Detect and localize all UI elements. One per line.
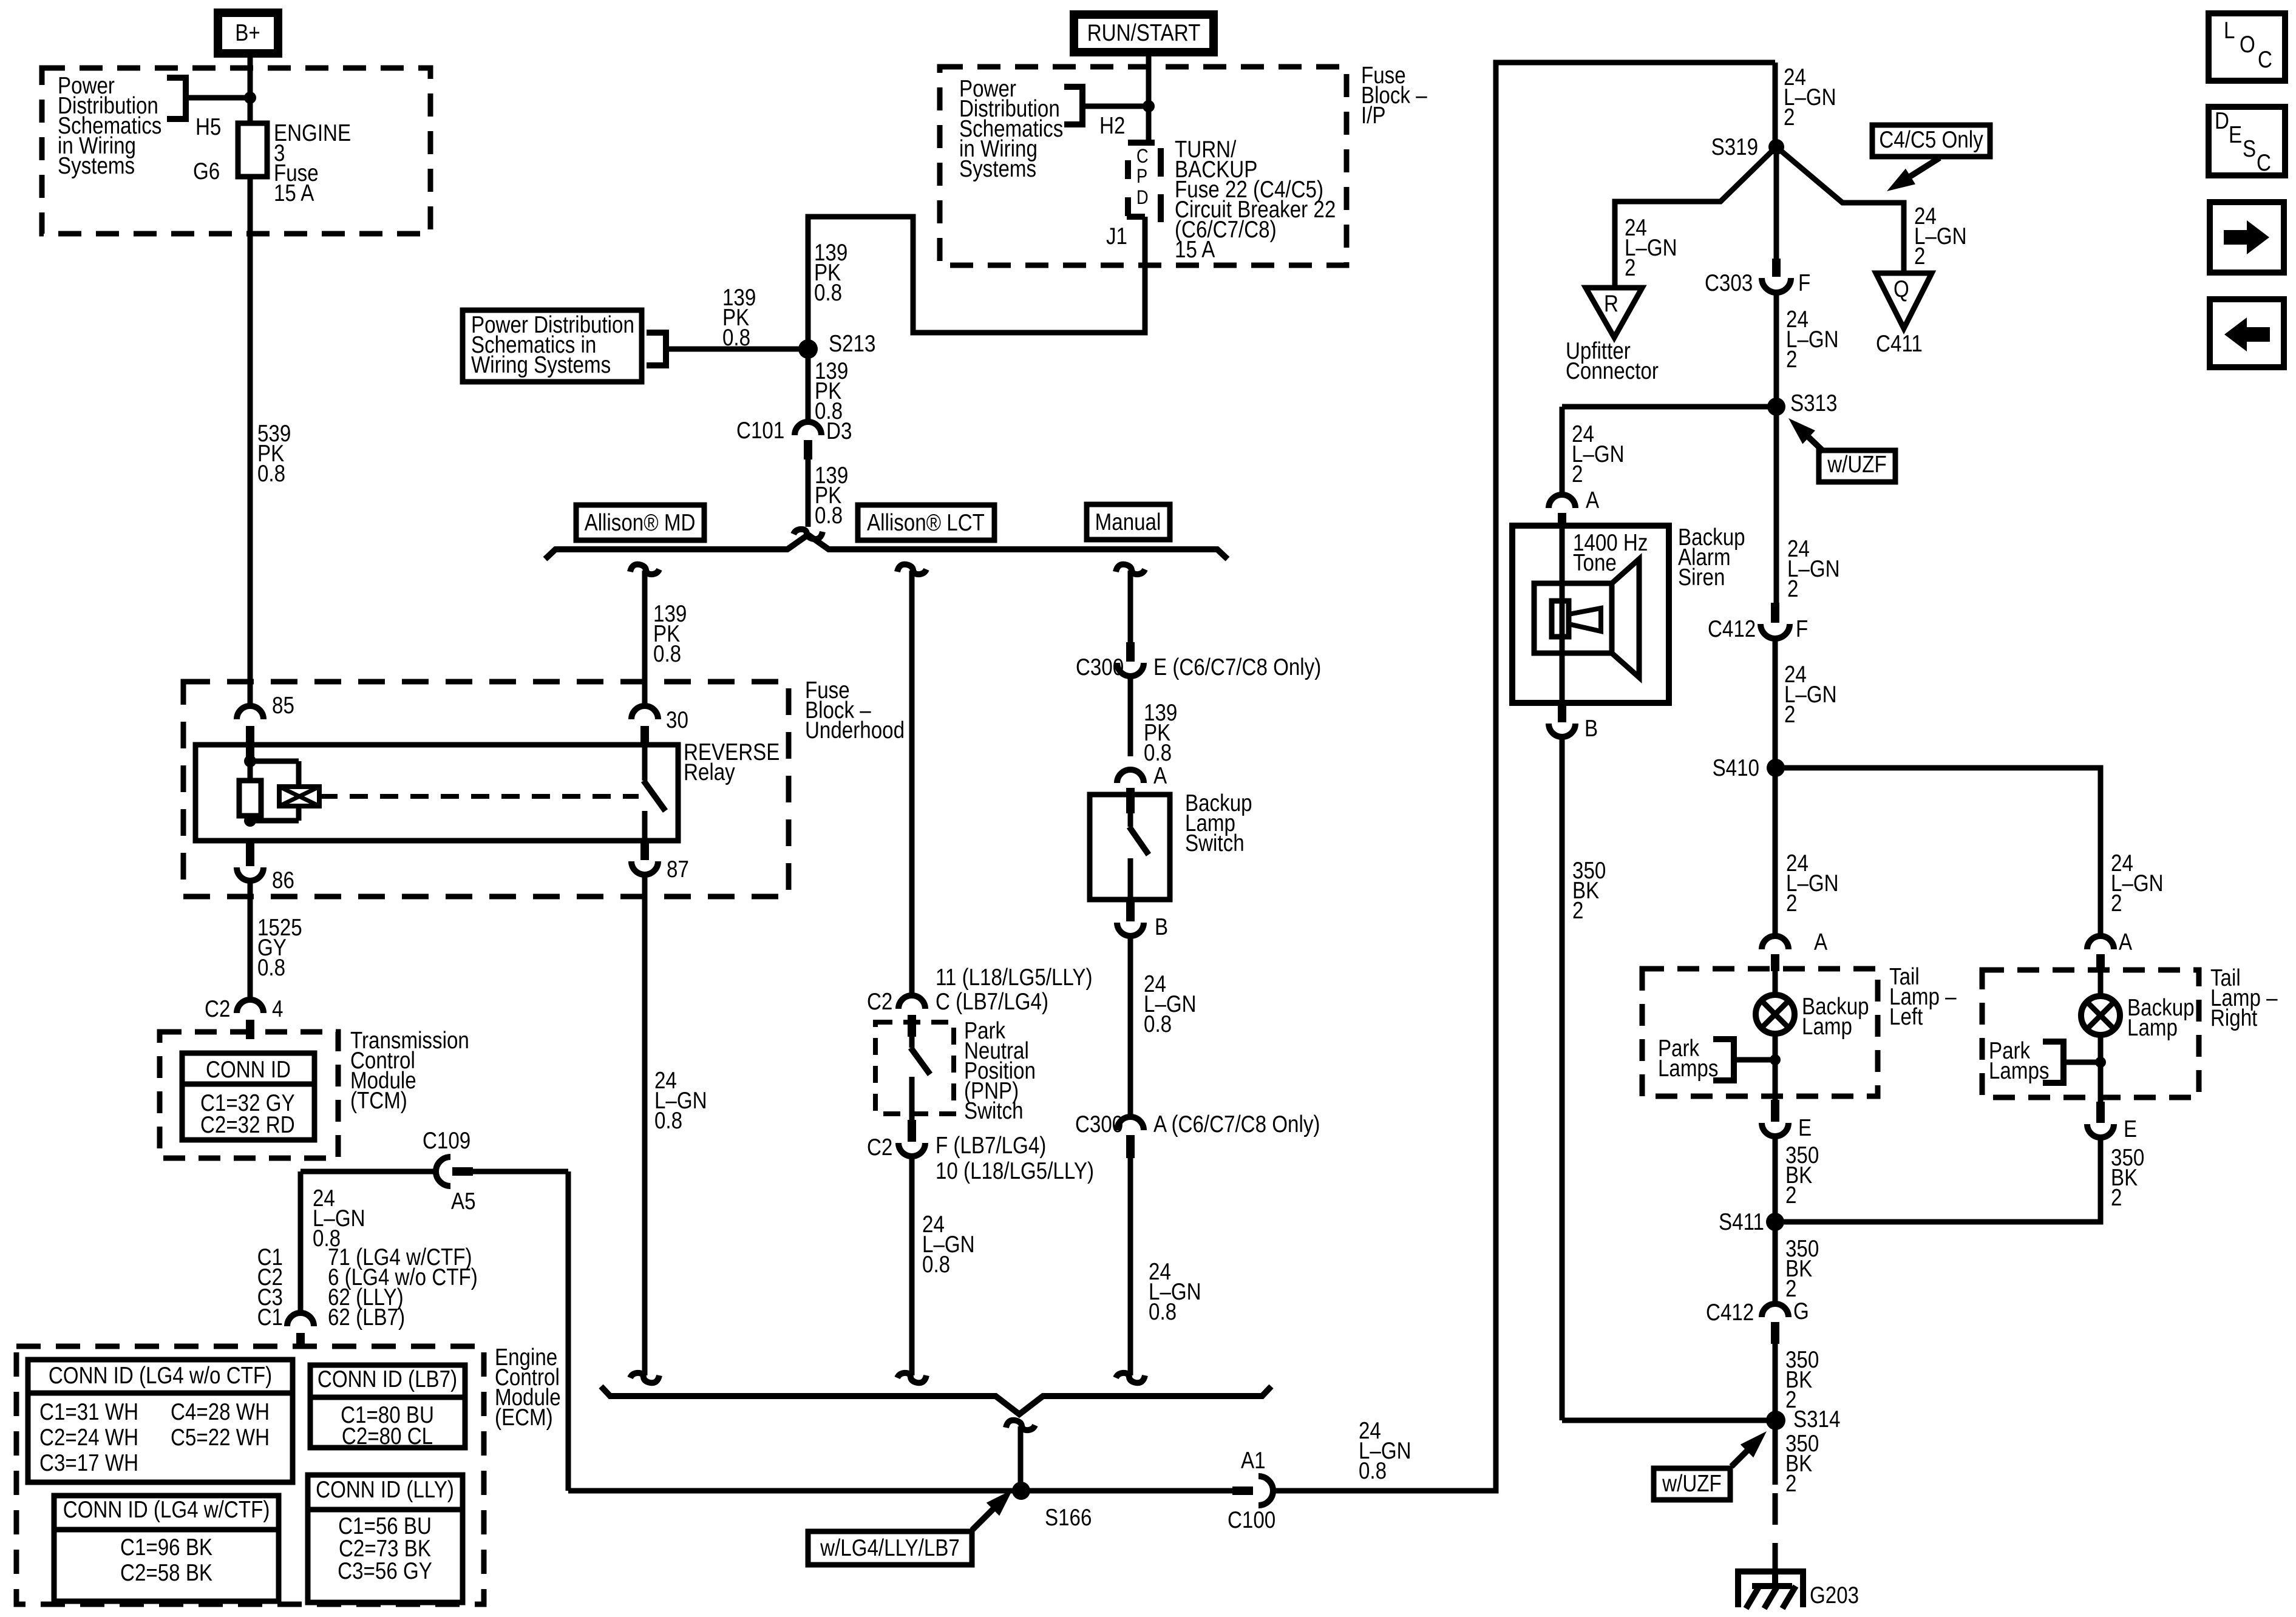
node S313 [1767, 389, 1837, 416]
svg-text:C2: C2 [867, 1133, 892, 1160]
svg-text:C412: C412 [1706, 1298, 1754, 1325]
circuit breaker CPD (TURN/BACKUP fuse 22) [1106, 143, 1161, 249]
page-reference bracket H5 [167, 78, 250, 140]
relay switch contact [644, 745, 665, 841]
svg-text:2: 2 [1784, 700, 1795, 727]
svg-text:C100: C100 [1228, 1506, 1275, 1533]
label: TURN/BACKUP Fuse 22 [1175, 135, 1336, 262]
svg-text:G6: G6 [193, 157, 220, 184]
svg-text:F: F [1796, 615, 1808, 642]
svg-text:30: 30 [666, 706, 688, 733]
svg-text:0.8: 0.8 [653, 640, 681, 666]
page-reference bracket H2 [1064, 87, 1149, 139]
connector pin 30 [631, 706, 688, 745]
tag box: Allison MD [576, 505, 704, 540]
Allison LCT branch hook [897, 564, 926, 574]
connector A (tail lamp right) [2087, 928, 2133, 972]
page-reference bracket at S213 [647, 283, 801, 365]
label: Fuse Block - I/P [1361, 61, 1427, 128]
legend box LOC [2209, 13, 2285, 81]
wire S314 down, label 350 BK 2, dashed to ground [1775, 1420, 1819, 1573]
svg-text:P: P [1136, 166, 1147, 188]
tail lamp left dashed box [1642, 969, 1878, 1096]
connector E (right) [2087, 1102, 2137, 1142]
svg-text:E: E [2124, 1115, 2137, 1142]
connector C2 pin 11/C (PNP) [867, 963, 1093, 1037]
node: coil top [244, 755, 256, 767]
node: lamp junction right [2095, 1057, 2106, 1068]
svg-text:w/UZF: w/UZF [1662, 1470, 1721, 1496]
label: Backup Alarm Siren [1678, 523, 1745, 590]
svg-text:R: R [1604, 290, 1618, 316]
Allison MD branch hook [630, 564, 659, 574]
wire LCT branch to PNP switch [909, 571, 915, 997]
wire siren B down to S314, label 350 BK 2 [1562, 737, 1767, 1420]
svg-text:2: 2 [1787, 575, 1798, 602]
connector C100 pin A1 [1228, 1446, 1275, 1533]
wire ECM pin to C109 [301, 1171, 436, 1313]
wire S213 to C101, label 139 PK 0.8 [808, 349, 848, 424]
svg-text:C2: C2 [205, 995, 230, 1022]
svg-text:C412: C412 [1708, 615, 1756, 642]
tag box: Manual [1087, 504, 1170, 540]
label 24 L-GN 0.8 (rail) [1359, 1417, 1411, 1483]
svg-text:H2: H2 [1099, 112, 1125, 138]
wire pin87 down to merge, label 24 L-GN 0.8 [645, 875, 707, 1375]
svg-text:RUN/START: RUN/START [1087, 19, 1201, 46]
legend box arrow right [2210, 202, 2284, 273]
svg-text:C101: C101 [736, 416, 784, 443]
wire 86 to TCM, label 1525 GY 0.8 [250, 881, 302, 998]
svg-text:10 (L18/LG5/LLY): 10 (L18/LG5/LLY) [936, 1157, 1094, 1184]
svg-text:C1=96 BK: C1=96 BK [120, 1533, 212, 1560]
svg-text:Lamp: Lamp [2127, 1014, 2178, 1040]
label: Transmission Control Module (TCM) [350, 1026, 469, 1113]
ground G203 [1738, 1571, 1859, 1609]
svg-text:Relay: Relay [684, 758, 736, 785]
wire lamp to E (right) [2098, 1035, 2104, 1102]
svg-text:O: O [2240, 30, 2255, 57]
svg-text:62 (LB7): 62 (LB7) [328, 1303, 405, 1330]
svg-text:2: 2 [1785, 1470, 1796, 1496]
ECM CONN ID (LB7) table [310, 1365, 465, 1449]
svg-text:Allison® LCT: Allison® LCT [867, 509, 985, 535]
svg-text:Switch: Switch [1185, 829, 1245, 856]
transmission control module dashed box [160, 1032, 338, 1158]
svg-text:0.8: 0.8 [257, 459, 285, 486]
PNP switch contact [911, 1037, 930, 1120]
backup lamp switch box [1090, 795, 1170, 900]
connector C300 pin A [1075, 1110, 1320, 1158]
connector pin 86 [237, 841, 294, 893]
svg-text:2: 2 [1625, 254, 1635, 280]
svg-text:G203: G203 [1810, 1581, 1859, 1608]
label: Tail Lamp - Left [1889, 963, 1957, 1029]
svg-text:2: 2 [2111, 889, 2122, 916]
label: Park Neutral Position (PNP) Switch [964, 1017, 1036, 1124]
svg-text:A: A [2119, 928, 2133, 955]
connector pin 87 [631, 841, 689, 883]
svg-text:CONN ID (LG4 w/o CTF): CONN ID (LG4 w/o CTF) [49, 1361, 272, 1388]
svg-text:2: 2 [1572, 460, 1583, 487]
wire E to S411, label 350 BK 2 [1775, 1136, 1819, 1222]
svg-text:A: A [1153, 762, 1167, 788]
wire S313 to siren branch [1562, 407, 1776, 495]
svg-text:w/UZF: w/UZF [1827, 450, 1886, 477]
fuse block underhood (primary) dashed box [42, 68, 430, 234]
node S166 [1012, 1482, 1092, 1531]
svg-text:C303: C303 [1705, 269, 1753, 296]
svg-text:2: 2 [2111, 1184, 2122, 1210]
boxed reference: Power Distribution Schematics in Wiring Systems [463, 310, 642, 382]
connector B (siren) [1549, 703, 1598, 742]
svg-text:C2=32 RD: C2=32 RD [200, 1111, 295, 1137]
svg-text:Underhood: Underhood [805, 716, 905, 743]
power terminal B+ [214, 8, 282, 58]
label: Fuse Block - Underhood [805, 676, 905, 743]
wire C101 to options bus, label 139 PK 0.8 [808, 459, 848, 529]
wire RUN/START down [1146, 56, 1152, 143]
svg-text:C2=58 BK: C2=58 BK [120, 1559, 212, 1585]
wire merge to S166 [1018, 1426, 1024, 1491]
svg-text:B: B [1584, 714, 1598, 741]
label: Backup Lamp Switch [1185, 789, 1252, 856]
node S314 [1766, 1405, 1840, 1432]
svg-text:4: 4 [272, 995, 283, 1022]
connector C2 pin 4 (TCM) [205, 995, 283, 1039]
svg-text:E: E [1798, 1114, 1812, 1141]
svg-text:D: D [1136, 187, 1149, 209]
fuse block I/P dashed box [940, 67, 1347, 265]
svg-text:J1: J1 [1106, 222, 1127, 249]
svg-text:0.8: 0.8 [814, 279, 842, 305]
backup lamp (left) [1756, 971, 1869, 1040]
svg-text:C3=17 WH: C3=17 WH [39, 1449, 138, 1476]
svg-text:CONN ID: CONN ID [206, 1056, 291, 1082]
svg-text:D: D [2215, 107, 2229, 134]
wire Manual branch to C300 E [1128, 571, 1133, 643]
svg-text:86: 86 [272, 866, 294, 893]
engine control module dashed box [16, 1346, 484, 1604]
tag box: w/UZF with arrow (S314) [1654, 1431, 1767, 1500]
node S213 [798, 330, 875, 359]
park lamps bracket (left) [1658, 1034, 1775, 1081]
svg-text:0.8: 0.8 [1144, 1010, 1172, 1037]
svg-text:S319: S319 [1711, 133, 1758, 160]
svg-text:F: F [1798, 269, 1810, 296]
svg-text:15 A: 15 A [274, 179, 314, 206]
ECM CONN ID (LLY) table [308, 1475, 463, 1602]
svg-text:C1=31 WH: C1=31 WH [39, 1398, 138, 1425]
wire lamp to E (left) [1773, 1034, 1778, 1102]
wire C300A to merge, label 24 L-GN 0.8 [1130, 1158, 1201, 1375]
svg-text:Systems: Systems [58, 152, 135, 178]
connector B (backup lamp switch) [1117, 900, 1168, 940]
svg-text:C: C [1136, 146, 1149, 168]
ECM pin variants list [257, 1243, 478, 1330]
svg-text:87: 87 [667, 855, 689, 882]
relay actuation dashed link [319, 794, 639, 799]
svg-text:C1: C1 [257, 1303, 283, 1330]
off-page triangle Q (C411) [1876, 273, 1932, 357]
svg-text:F (LB7/LG4): F (LB7/LG4) [936, 1131, 1046, 1158]
svg-text:S213: S213 [829, 330, 875, 356]
svg-text:A: A [1814, 928, 1828, 955]
svg-text:G: G [1793, 1297, 1809, 1324]
svg-text:A5: A5 [451, 1187, 476, 1214]
svg-text:0.8: 0.8 [922, 1250, 950, 1277]
svg-text:(TCM): (TCM) [350, 1086, 407, 1113]
tag box: w/UZF with arrow (S313) [1788, 418, 1895, 482]
svg-text:ENGINE: ENGINE [274, 119, 351, 146]
svg-text:2: 2 [1572, 897, 1583, 923]
svg-text:C2=24 WH: C2=24 WH [39, 1423, 138, 1450]
REVERSE relay box [195, 745, 678, 841]
wire C412G to S314, label 350 BK 2 [1775, 1344, 1819, 1420]
wire fuse to relay pin85, label 539 PK 0.8 [250, 177, 291, 707]
svg-text:C411: C411 [1876, 330, 1923, 356]
backup lamp switch contact [1129, 813, 1149, 900]
svg-text:C300: C300 [1076, 653, 1124, 680]
connector C109 pin A5 [423, 1127, 476, 1214]
svg-text:Allison® MD: Allison® MD [585, 509, 696, 535]
wire S313 to C412 F, label 24 L-GN 2 [1776, 407, 1840, 604]
park neutral position switch dashed box [875, 1022, 954, 1114]
node S410 [1713, 754, 1785, 781]
wire S411 to C412 G, label 350 BK 2 [1775, 1222, 1819, 1304]
svg-text:Lamps: Lamps [1989, 1057, 2049, 1083]
svg-text:C2=80 CL: C2=80 CL [342, 1422, 433, 1449]
wire B+ to fuse [248, 58, 253, 123]
fuse ENGINE 3 Fuse 15A [193, 119, 351, 206]
svg-text:S314: S314 [1793, 1405, 1840, 1432]
node: lamp junction left [1770, 1054, 1781, 1065]
svg-text:CONN ID (LLY): CONN ID (LLY) [316, 1476, 454, 1502]
legend box arrow left [2210, 299, 2284, 367]
svg-text:Systems: Systems [959, 155, 1036, 181]
svg-text:S411: S411 [1719, 1208, 1764, 1235]
svg-text:Switch: Switch [964, 1097, 1024, 1124]
connector C101 pin D3 [736, 416, 852, 459]
svg-text:C2: C2 [867, 988, 892, 1014]
svg-text:2: 2 [1784, 103, 1795, 130]
svg-text:E (C6/C7/C8 Only): E (C6/C7/C8 Only) [1153, 653, 1321, 680]
wire C303 to S313, label 24 L-GN 2 [1776, 293, 1839, 407]
svg-text:Tone: Tone [1573, 549, 1617, 575]
svg-text:E: E [2229, 121, 2242, 147]
svg-text:2: 2 [1786, 889, 1797, 916]
svg-text:C4/C5 Only: C4/C5 Only [1879, 126, 1983, 152]
wire C412F to S410, label 24 L-GN 2 [1775, 639, 1837, 768]
svg-text:Lamp: Lamp [1802, 1012, 1852, 1039]
svg-text:15 A: 15 A [1175, 236, 1215, 262]
svg-text:S410: S410 [1713, 754, 1759, 781]
wire C100 right and up to top right [1272, 63, 1775, 1491]
power terminal RUN/START [1070, 10, 1218, 56]
svg-text:B: B [1155, 913, 1168, 940]
TCM CONN ID table [182, 1053, 314, 1140]
backup alarm siren box [1512, 526, 1669, 703]
svg-text:S166: S166 [1045, 1503, 1092, 1530]
svg-text:L: L [2224, 16, 2235, 43]
options bus transition curl [793, 529, 823, 539]
node S319 [1711, 133, 1784, 160]
wire S319 to C411 branch [1776, 147, 1967, 273]
svg-text:85: 85 [272, 691, 294, 718]
svg-text:2: 2 [1785, 1181, 1796, 1208]
svg-text:Connector: Connector [1566, 357, 1659, 384]
node: junction on B+ feed [244, 92, 256, 104]
connector E (left) [1762, 1100, 1812, 1141]
connector A (backup lamp switch) [1117, 762, 1167, 813]
relay solenoid winding [250, 761, 319, 821]
merge transition curl [1006, 1420, 1035, 1430]
connector C412 pin F [1708, 603, 1808, 642]
wire B to C300 A, label 24 L-GN 0.8 [1130, 936, 1197, 1117]
tag box: Allison LCT [858, 505, 994, 540]
label: Power Distribution Schematics in Wiring Systems [58, 72, 161, 178]
svg-text:0.8: 0.8 [257, 954, 285, 980]
connector C1 pin 62 (ECM) [287, 1313, 314, 1349]
svg-text:Wiring Systems: Wiring Systems [471, 351, 611, 378]
LCT branch foot [897, 1373, 926, 1383]
svg-text:A: A [1586, 486, 1600, 513]
svg-text:S: S [2243, 135, 2256, 161]
svg-text:2: 2 [1914, 242, 1925, 269]
svg-text:(ECM): (ECM) [495, 1403, 553, 1430]
Manual branch hook [1116, 564, 1145, 574]
label: Tail Lamp - Right [2210, 964, 2278, 1031]
svg-text:w/LG4/LLY/LB7: w/LG4/LLY/LB7 [820, 1534, 960, 1561]
backup lamp (right) [2081, 972, 2195, 1041]
options merge brace (bottom) [601, 1386, 1271, 1414]
connector C2 pin F/10 (PNP) [867, 1120, 1094, 1184]
connector C412 pin G [1706, 1297, 1809, 1344]
svg-text:CONN ID (LG4 w/CTF): CONN ID (LG4 w/CTF) [63, 1496, 270, 1522]
legend box DESC [2209, 107, 2285, 176]
wire S410 down left branch, label 24 L-GN 2 [1775, 768, 1839, 936]
siren speaker symbol [1534, 559, 1639, 677]
fuse block underhood dashed box (relay) [183, 682, 789, 897]
svg-text:Left: Left [1889, 1003, 1923, 1029]
svg-text:C5=22 WH: C5=22 WH [171, 1423, 270, 1450]
node S411 [1719, 1208, 1784, 1235]
svg-text:2: 2 [1786, 345, 1797, 372]
svg-text:0.8: 0.8 [1149, 1298, 1177, 1324]
label: Upfitter Connector [1566, 337, 1659, 384]
wire S319 down to C303 [1774, 147, 1779, 260]
wire C300E to backup lamp switch, label 139 PK 0.8 [1130, 676, 1177, 766]
svg-text:Manual: Manual [1095, 508, 1161, 535]
wire top right down to S319, label 24 L-GN 2 [1775, 63, 1836, 147]
options bus (top brace) [545, 535, 1228, 559]
tail lamp right dashed box [1982, 970, 2199, 1097]
svg-text:C300: C300 [1075, 1110, 1123, 1137]
tag box: C4/C5 Only with arrow [1872, 125, 1990, 191]
svg-text:C3=56 GY: C3=56 GY [338, 1557, 432, 1584]
svg-text:Siren: Siren [1678, 563, 1725, 590]
connector C303 pin F [1705, 259, 1810, 296]
svg-text:CONN ID (LB7): CONN ID (LB7) [318, 1365, 457, 1392]
svg-text:11 (L18/LG5/LLY): 11 (L18/LG5/LLY) [936, 963, 1093, 990]
svg-text:Right: Right [2210, 1004, 2257, 1031]
svg-text:I/P: I/P [1361, 101, 1386, 128]
label: REVERSE Relay [684, 738, 779, 785]
label: Power Distribution Schematics in Wiring Systems (I/P) [959, 75, 1063, 181]
svg-text:C (LB7/LG4): C (LB7/LG4) [936, 988, 1048, 1014]
relay coil resistor [239, 759, 261, 823]
svg-text:A1: A1 [1241, 1446, 1266, 1473]
wire E right down to S411 rail, label 350 BK 2 [1775, 1137, 2144, 1222]
node: junction H2 [1143, 100, 1155, 112]
svg-text:0.8: 0.8 [815, 501, 843, 528]
bottom rail wire [568, 1488, 1234, 1494]
svg-text:B+: B+ [235, 19, 260, 46]
Manual branch foot [1116, 1373, 1145, 1383]
svg-text:C: C [2258, 46, 2272, 72]
connector A (tail lamp left) [1762, 928, 1828, 971]
svg-text:H5: H5 [195, 113, 221, 140]
park lamps bracket (right) [1989, 1037, 2101, 1083]
off-page triangle R (upfitter) [1586, 288, 1642, 337]
svg-text:Q: Q [1894, 275, 1909, 302]
svg-text:A (C6/C7/C8 Only): A (C6/C7/C8 Only) [1153, 1110, 1320, 1137]
MD branch foot [630, 1373, 659, 1383]
wire S319 to upfitter branch [1615, 147, 1776, 288]
connector A (siren) [1549, 486, 1600, 527]
connector C300 pin E [1076, 642, 1321, 680]
wire S410 to right tail lamp branch [1776, 768, 2164, 936]
svg-text:C4=28 WH: C4=28 WH [171, 1398, 270, 1425]
tag box: w/LG4/LLY/LB7 with arrow [808, 1490, 1013, 1565]
wire MD branch to pin30, label 139 PK 0.8 [645, 571, 687, 707]
svg-text:C109: C109 [423, 1127, 470, 1153]
ECM CONN ID (LG4 w/o CTF) table [28, 1360, 293, 1482]
svg-text:Lamps: Lamps [1658, 1054, 1718, 1081]
connector pin 85 [237, 691, 294, 759]
wire C109 to bottom rail, label 24 L-GN 0.8 [313, 1171, 568, 1491]
wire J1 to S213 (z-path) [808, 217, 1145, 349]
ECM CONN ID (LG4 w/CTF) table [54, 1496, 279, 1601]
svg-text:0.8: 0.8 [654, 1107, 682, 1133]
svg-text:S313: S313 [1790, 389, 1837, 416]
wire through siren [1560, 527, 1565, 702]
label: Engine Control Module (ECM) [495, 1343, 561, 1430]
wire PNP to merge, label 24 L-GN 0.8 [912, 1156, 975, 1375]
svg-text:C: C [2257, 149, 2271, 175]
svg-text:0.8: 0.8 [722, 324, 750, 350]
svg-text:D3: D3 [826, 417, 852, 444]
svg-text:0.8: 0.8 [1359, 1457, 1387, 1483]
node: coil bottom [244, 815, 256, 827]
